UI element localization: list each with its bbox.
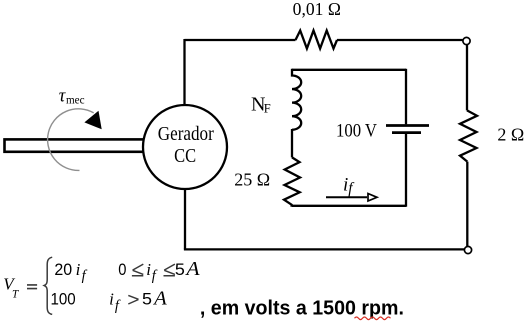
svg-text:f: f — [82, 268, 88, 284]
svg-text:20: 20 — [54, 260, 72, 279]
resistor R1 0,01 ohm — [296, 31, 338, 49]
svg-text:i: i — [76, 260, 81, 279]
svg-text:100: 100 — [51, 289, 76, 308]
formula V_T — [3, 257, 200, 314]
battery B1 100 V negative plate — [392, 131, 421, 134]
svg-text:T: T — [12, 288, 19, 300]
svg-text:5: 5 — [175, 260, 185, 279]
svg-text:0: 0 — [118, 260, 126, 279]
wire: generator bottom vertical — [184, 190, 186, 249]
wire: right vertical lower segment — [466, 162, 468, 247]
svg-text:5: 5 — [142, 289, 152, 308]
svg-text:mec: mec — [66, 93, 85, 107]
spellcheck squiggle under rpm — [355, 317, 391, 320]
battery B1 100 V positive plate — [386, 124, 429, 127]
wire: left vertical from top wire to generator — [183, 39, 185, 105]
svg-text:CC: CC — [174, 145, 196, 167]
inductor NF field winding — [292, 69, 301, 130]
resistor R2 2 ohm — [460, 110, 477, 161]
wire: right vertical upper segment — [466, 45, 468, 111]
field circuit: bottom wire — [292, 205, 406, 207]
svg-text:25 Ω: 25 Ω — [234, 170, 270, 190]
svg-text:i: i — [109, 290, 114, 309]
current arrow i_f — [326, 196, 367, 198]
svg-text:F: F — [264, 101, 271, 115]
svg-text:f: f — [348, 180, 355, 197]
rotation arrowhead — [84, 111, 101, 130]
wire: top left segment — [185, 39, 296, 41]
svg-text:f: f — [115, 298, 121, 314]
terminal node bottom right — [464, 246, 471, 253]
wire: bottom horizontal — [184, 248, 464, 250]
svg-text:f: f — [152, 268, 158, 284]
terminal node top right — [463, 37, 470, 44]
svg-text:i: i — [146, 260, 151, 279]
wire: field circuit left segment — [291, 129, 293, 157]
svg-text:A: A — [152, 288, 167, 309]
svg-text:100 V: 100 V — [336, 122, 378, 142]
wire: field circuit right upper segment — [405, 69, 407, 125]
svg-text:0,01 Ω: 0,01 Ω — [293, 0, 341, 19]
svg-text:A: A — [184, 258, 200, 280]
rotation arc tau_mec — [48, 109, 94, 171]
generator circle U1 — [143, 105, 227, 189]
field circuit: top wire — [292, 69, 406, 71]
shaft (mechanical input) — [5, 139, 147, 151]
resistor 25 ohm (left side) — [284, 157, 300, 206]
wire: field circuit right lower segment — [405, 133, 407, 207]
svg-text:, em volts a 1500 rpm.: , em volts a 1500 rpm. — [200, 296, 404, 319]
equals — [27, 285, 37, 289]
brace — [44, 257, 52, 314]
svg-text:Gerador: Gerador — [158, 123, 214, 145]
svg-text:2 Ω: 2 Ω — [497, 124, 524, 144]
wire: top right segment — [337, 39, 463, 41]
